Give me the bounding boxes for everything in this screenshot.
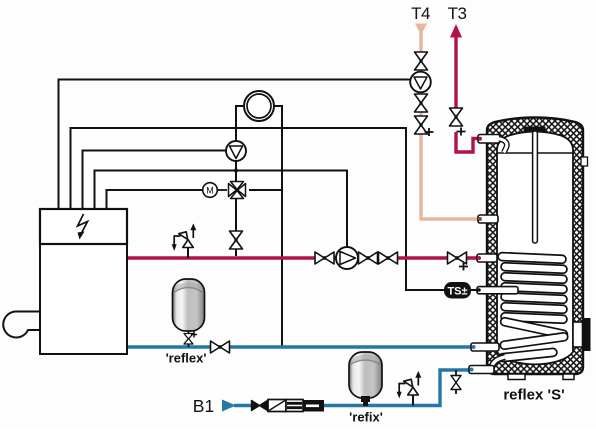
- wire mixing valve to right leg: [249, 189, 282, 191]
- B1 inlet arrow: [222, 400, 236, 412]
- T3 pipe (red): [456, 35, 480, 152]
- motor actuator M: [203, 183, 227, 198]
- svg-text:TS±: TS±: [447, 286, 467, 298]
- water meter: [286, 400, 303, 412]
- stub return: [471, 343, 499, 351]
- T3 outlet arrow: [450, 24, 462, 38]
- stub supply: [477, 254, 497, 262]
- TS sensor pill: [444, 282, 471, 299]
- valve T4 lower with drain: [415, 116, 428, 134]
- check valve after pump: [379, 252, 398, 264]
- svg-text:'reflex': 'reflex': [166, 351, 207, 366]
- boiler control box: [40, 209, 127, 244]
- drain valve at tank bottom line: [451, 370, 461, 394]
- pump T4: [410, 72, 431, 93]
- stub T3: [478, 135, 500, 144]
- T3 branch components: [448, 4, 467, 136]
- wire boiler riser 5 to mixing valve motor: [107, 190, 204, 209]
- sensor well tube: [533, 131, 538, 243]
- refix connection fitting: [361, 396, 370, 402]
- fill valve: [252, 401, 268, 411]
- heating circuit pump on supply: [336, 247, 358, 269]
- valve T3 with drain: [450, 108, 463, 126]
- coil lower diagonal crossing: [500, 332, 568, 349]
- wire heat-exchanger circle right leg: [273, 106, 282, 347]
- valve T4 upper: [415, 52, 428, 70]
- tank right foot: [563, 374, 574, 380]
- valve on supply before pump: [315, 252, 334, 264]
- tank inner vessel: [497, 132, 573, 365]
- tank connection stubs: [469, 135, 518, 374]
- lightning symbol: [78, 214, 88, 235]
- tank left foot: [508, 374, 525, 380]
- tank inner weld line: [497, 152, 573, 154]
- boiler circuit pump: [226, 141, 246, 161]
- wire heat-exchanger circle left leg: [236, 106, 245, 256]
- fill pipe B1 (blue): [234, 370, 474, 406]
- T4 inlet arrow: [415, 24, 427, 36]
- svg-text:T3: T3: [448, 4, 467, 23]
- T4 branch components: [410, 4, 433, 136]
- boiler flue loop: [3, 311, 41, 337]
- storage tank reflex S: [487, 118, 591, 380]
- tank top label band: [524, 127, 546, 132]
- refix expansion vessel: [349, 352, 383, 425]
- BLACK PIPES: [59, 80, 482, 348]
- wire boiler riser 1 to T4 pump: [59, 80, 411, 210]
- T3 dip hook: [499, 139, 507, 153]
- junction at circuit tee: [234, 169, 238, 173]
- coil bottom tube: [499, 348, 558, 362]
- BOILER: [3, 209, 127, 354]
- svg-text:B1: B1: [193, 396, 214, 416]
- svg-text:'refix': 'refix': [349, 410, 383, 425]
- safety valve at boiler: [172, 224, 197, 259]
- stub sensor TS: [477, 287, 518, 294]
- 4-way mixing valve: [229, 182, 246, 199]
- stub bottom drain: [469, 366, 494, 374]
- coil lower diagonal: [500, 317, 568, 339]
- supply pipe (red): [127, 256, 481, 259]
- wire boiler riser 2 to sensor line: [71, 128, 482, 290]
- stub T4: [478, 215, 498, 223]
- T4 pipe (pink): [421, 32, 480, 219]
- safety valve at fill line: [397, 371, 422, 406]
- boiler body: [40, 244, 127, 354]
- right wall pocket: [581, 157, 588, 166]
- wire boiler riser 3 to boiler pump: [83, 151, 227, 210]
- heat-exchanger circle: [244, 91, 274, 121]
- svg-text:reflex 'S': reflex 'S': [503, 387, 564, 404]
- coil outlet hook: [492, 357, 506, 369]
- wire boiler riser 4 to circuit pump: [95, 171, 348, 249]
- tank insulated shell: [487, 118, 583, 375]
- valve below mixing valve: [230, 231, 243, 249]
- valve on return line: [211, 341, 230, 353]
- svg-text:M: M: [206, 185, 214, 195]
- valve after pump: [359, 252, 378, 264]
- valve with drain at tank supply: [448, 252, 467, 264]
- svg-text:T4: T4: [411, 4, 430, 23]
- reflex connection fitting: [188, 331, 190, 347]
- heating coil: [492, 252, 569, 369]
- check valve T4: [415, 94, 428, 112]
- backflow preventer: [303, 400, 324, 412]
- B1 fill group: [193, 396, 324, 416]
- strainer: [268, 400, 286, 412]
- return pipe (blue): [127, 345, 481, 349]
- reflex expansion vessel: [166, 279, 207, 366]
- electric flange: [573, 322, 583, 347]
